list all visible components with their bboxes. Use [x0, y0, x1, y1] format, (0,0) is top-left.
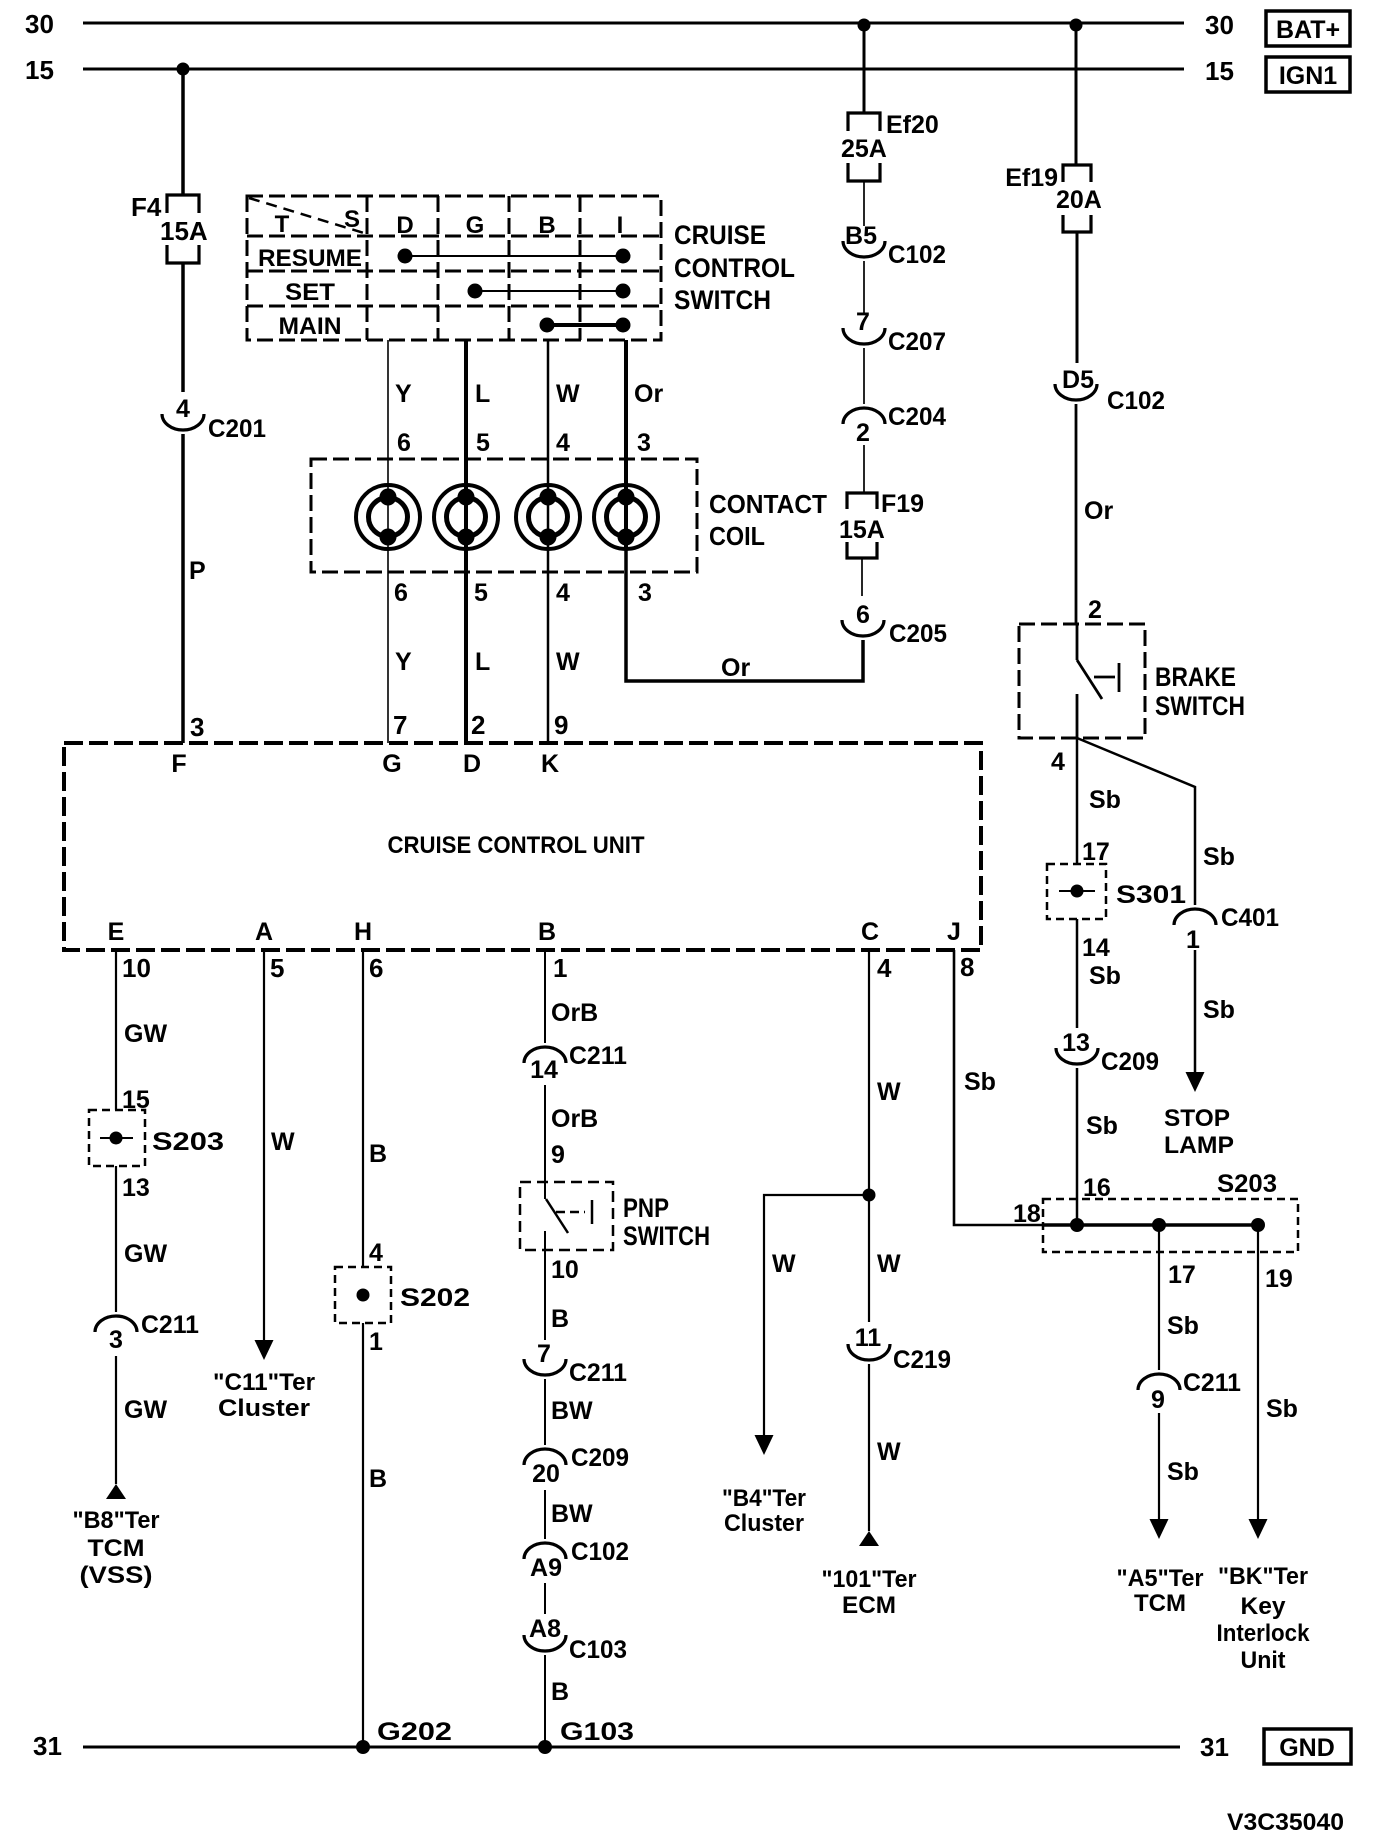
wire W label colC 2 — [877, 1250, 901, 1278]
wire P label — [189, 557, 206, 585]
fuse Ef19 label — [1005, 164, 1058, 192]
cruise control switch title — [674, 220, 795, 315]
ECM label — [822, 1566, 917, 1619]
svg-text:IGN1: IGN1 — [1279, 62, 1337, 90]
unit pin A label — [255, 918, 273, 946]
coil ring 3 (Or) — [594, 485, 658, 549]
wire Sb label 19 — [1266, 1395, 1298, 1423]
connector C102 pin B5 — [843, 222, 946, 269]
wire C103 to G103 (B) — [544, 1655, 546, 1747]
unit pin K label — [541, 750, 559, 778]
wire B label colH 1 — [369, 1140, 387, 1168]
wire Y pin 6 upper — [397, 429, 411, 457]
S203 pin 18 label — [1013, 1200, 1041, 1228]
switch divider row set — [247, 305, 661, 308]
svg-text:F4: F4 — [131, 192, 162, 222]
svg-text:TCM: TCM — [88, 1535, 145, 1562]
connector C209 pin 20 — [524, 1444, 629, 1488]
junction rail 30 at Ef20 — [858, 19, 871, 32]
stop lamp arrow — [1186, 1072, 1205, 1092]
wire C209 to C102 (BW) — [544, 1490, 546, 1539]
ground G202 junction — [356, 1740, 370, 1754]
brake switch lower wire — [1076, 694, 1079, 738]
switch divider row resume — [247, 270, 661, 273]
svg-text:18: 18 — [1013, 1200, 1041, 1228]
wire F4 to C201 (P) — [181, 263, 185, 392]
splice S203 bus — [1043, 1223, 1258, 1227]
svg-text:3: 3 — [109, 1326, 123, 1354]
svg-text:3: 3 — [638, 579, 652, 607]
wire brake to S301 (Sb) — [1076, 738, 1079, 864]
svg-text:I: I — [617, 212, 624, 239]
svg-text:A: A — [255, 918, 273, 946]
svg-text:Sb: Sb — [1266, 1395, 1298, 1423]
connector C211 pin 7 — [524, 1340, 627, 1387]
brake switch title — [1155, 662, 1245, 721]
svg-text:C211: C211 — [141, 1311, 199, 1339]
wire C207 to C204 — [863, 348, 865, 404]
svg-text:S203: S203 — [152, 1128, 224, 1156]
wire Ef19 to D5 — [1076, 232, 1079, 363]
svg-text:3: 3 — [637, 429, 651, 457]
svg-text:S301: S301 — [1116, 881, 1186, 909]
svg-text:3: 3 — [190, 712, 204, 742]
GND terminal box — [1264, 1729, 1351, 1764]
svg-text:BW: BW — [551, 1397, 593, 1425]
svg-text:8: 8 — [960, 952, 974, 982]
wire Y label upper — [395, 380, 412, 408]
svg-text:T: T — [275, 211, 290, 238]
junction rail 30 at Ef19 — [1070, 19, 1083, 32]
svg-text:4: 4 — [556, 579, 570, 607]
svg-text:15: 15 — [25, 55, 54, 85]
svg-text:W: W — [877, 1250, 901, 1278]
switch divider col G/B — [508, 196, 511, 340]
svg-text:17: 17 — [1082, 838, 1110, 866]
ground G103 label — [560, 1718, 634, 1746]
svg-text:4: 4 — [1051, 748, 1065, 776]
unit pin 6 label — [369, 953, 383, 983]
S203 pin 17 label — [1168, 1261, 1196, 1289]
svg-text:LAMP: LAMP — [1164, 1132, 1234, 1159]
unit pin 8 label — [960, 952, 974, 982]
unit pin D label — [463, 750, 481, 778]
stop lamp label — [1164, 1105, 1234, 1159]
unit pin B label — [538, 918, 556, 946]
connector C102 pin A9 — [524, 1538, 629, 1582]
unit pin E label — [108, 918, 125, 946]
svg-text:9: 9 — [554, 710, 568, 740]
PNP pin 10 label — [551, 1256, 579, 1284]
svg-text:C209: C209 — [571, 1444, 629, 1472]
branch wire to stop lamp — [1077, 738, 1195, 905]
svg-text:W: W — [271, 1128, 295, 1156]
svg-text:7: 7 — [537, 1340, 551, 1368]
TCM A5 arrow — [1150, 1519, 1169, 1539]
wire W label colC 3 — [877, 1438, 901, 1466]
main contact I — [616, 318, 631, 333]
svg-text:OrB: OrB — [551, 999, 598, 1027]
ground rail 31 (GND) — [83, 1746, 1180, 1749]
S202 pin 1 label — [369, 1328, 383, 1356]
ECM arrow — [859, 1531, 879, 1546]
coil ring 5 (L) — [434, 485, 498, 549]
splice S203 label (main) — [1217, 1170, 1277, 1198]
svg-text:GND: GND — [1279, 1734, 1335, 1762]
svg-text:Sb: Sb — [1203, 996, 1235, 1024]
connector C211 pin 3 — [95, 1311, 199, 1354]
svg-text:J: J — [947, 918, 961, 946]
svg-text:ECM: ECM — [842, 1592, 896, 1619]
svg-text:31: 31 — [33, 1731, 62, 1761]
brake switch pin 4 label — [1051, 748, 1065, 776]
switch divider row header — [247, 235, 661, 238]
svg-text:C102: C102 — [1107, 387, 1165, 415]
svg-text:Unit: Unit — [1241, 1647, 1286, 1674]
brake switch contact — [1094, 663, 1119, 692]
svg-text:20A: 20A — [1056, 186, 1102, 214]
svg-text:SET: SET — [285, 279, 335, 306]
wire W pin 4 upper — [556, 429, 570, 457]
coil ring 6 (Y) — [356, 485, 420, 549]
svg-text:9: 9 — [1151, 1386, 1165, 1414]
splice S203 junction 16 — [1070, 1218, 1084, 1232]
unit pin 1 label — [553, 953, 567, 983]
rail 15 left label — [25, 55, 54, 85]
svg-text:C204: C204 — [888, 403, 946, 431]
svg-text:G: G — [382, 750, 401, 778]
svg-text:BRAKE: BRAKE — [1155, 662, 1236, 692]
splice S202 — [335, 1267, 391, 1323]
svg-text:13: 13 — [1062, 1029, 1090, 1057]
S301 pin 14 label — [1082, 934, 1110, 962]
wire C102 to C207 — [863, 261, 865, 313]
wire C204 to F19 — [863, 445, 865, 493]
cluster B4 arrow — [755, 1435, 774, 1455]
svg-text:4: 4 — [369, 1239, 383, 1267]
wire L upper — [464, 340, 468, 486]
switch header G — [466, 212, 485, 239]
svg-text:C211: C211 — [569, 1359, 627, 1387]
svg-text:14: 14 — [530, 1056, 558, 1084]
svg-text:F: F — [171, 750, 186, 778]
svg-text:Sb: Sb — [1089, 786, 1121, 814]
switch divider col T/S — [366, 196, 369, 340]
wire Ef20 to C102 — [863, 181, 865, 226]
svg-text:2: 2 — [1088, 596, 1102, 624]
wire B label colH 2 — [369, 1465, 387, 1493]
svg-text:L: L — [475, 648, 490, 676]
coil pin 3 lower — [638, 579, 652, 607]
svg-text:A8: A8 — [529, 1615, 561, 1643]
svg-text:GW: GW — [124, 1240, 167, 1268]
fuse F4 label — [131, 192, 162, 222]
svg-text:25A: 25A — [841, 135, 887, 163]
wire Sb label above S203 — [1086, 1112, 1118, 1140]
svg-text:H: H — [354, 918, 372, 946]
wire GW label 3 — [124, 1396, 167, 1424]
S203 pin 19 label — [1265, 1265, 1293, 1293]
S301 pin 17 label — [1082, 838, 1110, 866]
wire pin E to S203 (GW) — [115, 950, 117, 1110]
svg-text:B5: B5 — [845, 222, 877, 250]
svg-text:C: C — [861, 918, 879, 946]
splice S202 label — [400, 1284, 470, 1312]
svg-text:B: B — [551, 1305, 569, 1333]
svg-text:Sb: Sb — [1086, 1112, 1118, 1140]
cruise control unit outline — [64, 743, 981, 950]
svg-text:Key: Key — [1241, 1593, 1287, 1620]
wire L label lower — [475, 648, 490, 676]
svg-text:CRUISE CONTROL UNIT: CRUISE CONTROL UNIT — [388, 832, 645, 859]
brake switch outline — [1019, 624, 1145, 738]
svg-text:4: 4 — [176, 395, 190, 423]
wire Or pin 3 upper — [637, 429, 651, 457]
svg-text:A9: A9 — [530, 1554, 562, 1582]
wire B label colB 2 — [551, 1678, 569, 1706]
wire Sb label 17a — [1167, 1312, 1199, 1340]
unit pin C label — [861, 918, 879, 946]
power rail 30 (BAT+) — [83, 22, 1184, 25]
coil pin 5 lower — [474, 579, 488, 607]
svg-text:OrB: OrB — [551, 1105, 598, 1133]
set contact G — [468, 284, 483, 299]
svg-text:BW: BW — [551, 1500, 593, 1528]
svg-text:B: B — [551, 1678, 569, 1706]
svg-text:SWITCH: SWITCH — [1155, 691, 1245, 721]
connector C209 pin 13 — [1056, 1029, 1159, 1076]
svg-text:C211: C211 — [1183, 1369, 1241, 1397]
wire L label upper — [475, 380, 490, 408]
cruise control switch outline — [247, 196, 661, 340]
svg-text:Sb: Sb — [1089, 962, 1121, 990]
svg-text:C205: C205 — [889, 620, 947, 648]
svg-text:CONTACT: CONTACT — [709, 489, 827, 519]
S203 pin 13 label — [122, 1174, 150, 1202]
wire C201 to pin F — [181, 434, 185, 743]
wire C209 to S203 (Sb) — [1076, 1068, 1079, 1225]
wire C211-9 to TCM (Sb) — [1158, 1413, 1160, 1521]
svg-text:S203: S203 — [1217, 1170, 1277, 1198]
svg-text:V3C35040: V3C35040 — [1227, 1809, 1344, 1836]
svg-text:6: 6 — [856, 601, 870, 629]
svg-text:K: K — [541, 750, 559, 778]
svg-text:TCM: TCM — [1134, 1590, 1186, 1617]
svg-text:"101"Ter: "101"Ter — [822, 1566, 917, 1593]
svg-text:Or: Or — [634, 380, 663, 408]
wire B label colB 1 — [551, 1305, 569, 1333]
svg-text:5: 5 — [476, 429, 490, 457]
key interlock arrow — [1249, 1519, 1268, 1539]
switch header S — [344, 206, 360, 233]
svg-text:Y: Y — [395, 380, 412, 408]
svg-text:D: D — [396, 212, 413, 239]
PNP switch title — [623, 1193, 710, 1251]
switch row SET label — [285, 279, 335, 306]
wire Y upper — [387, 340, 389, 486]
wire pin J to S203 (Sb) — [954, 950, 1043, 1225]
power rail 15 (IGN1) — [83, 68, 1184, 71]
svg-text:B: B — [538, 918, 556, 946]
resume contact link — [405, 255, 623, 257]
fuse Ef20 25A — [848, 113, 880, 181]
svg-text:Y: Y — [395, 648, 412, 676]
svg-text:STOP: STOP — [1164, 1105, 1230, 1132]
svg-text:1: 1 — [1186, 926, 1200, 954]
unit pin 10 label — [122, 953, 151, 983]
unit pin 5 label — [270, 953, 284, 983]
wire W lower — [547, 548, 550, 743]
wire OrB label 1 — [551, 999, 598, 1027]
svg-text:"B8"Ter: "B8"Ter — [73, 1507, 160, 1534]
svg-text:13: 13 — [122, 1174, 150, 1202]
wire C401 to stop lamp (Sb) — [1194, 950, 1197, 1076]
splice S203 (E column) — [89, 1110, 145, 1166]
svg-text:B: B — [538, 212, 555, 239]
main contact B — [540, 318, 555, 333]
wire Sb label colJ — [964, 1068, 996, 1096]
svg-text:C102: C102 — [888, 241, 946, 269]
wire W label upper — [556, 380, 580, 408]
svg-text:GW: GW — [124, 1396, 167, 1424]
svg-text:C219: C219 — [893, 1346, 951, 1374]
splice S203 junction 19 — [1251, 1218, 1265, 1232]
svg-text:CRUISE: CRUISE — [674, 220, 766, 250]
svg-text:15A: 15A — [160, 216, 208, 246]
wire C211 to TCM (GW) — [115, 1356, 117, 1484]
fuse F19 value 15A — [839, 516, 885, 544]
wire Or label upper — [634, 380, 663, 408]
svg-text:15: 15 — [1205, 56, 1234, 86]
cluster B4 label — [722, 1485, 806, 1537]
TCM A5 label — [1117, 1565, 1204, 1617]
brake switch pin 2 — [1088, 596, 1102, 624]
connector C219 pin 11 — [848, 1324, 951, 1374]
ground G202 label — [377, 1718, 452, 1746]
fuse Ef19 value 20A — [1056, 186, 1102, 214]
svg-text:C209: C209 — [1101, 1048, 1159, 1076]
junction on rail 15 — [177, 63, 190, 76]
splice S203 junction 17 — [1152, 1218, 1166, 1232]
svg-text:S202: S202 — [400, 1284, 470, 1312]
key interlock label — [1217, 1563, 1311, 1674]
wire K pin 9 — [554, 710, 568, 740]
fuse F4 15A — [167, 195, 199, 263]
switch row MAIN label — [279, 313, 342, 340]
set contact I — [616, 284, 631, 299]
connector C211 pin 14 — [524, 1042, 627, 1084]
svg-text:W: W — [877, 1078, 901, 1106]
wire Sb label below S301 — [1089, 962, 1121, 990]
pin 3 label at unit F — [190, 712, 204, 742]
cluster C11 label — [213, 1369, 315, 1422]
svg-text:1: 1 — [553, 953, 567, 983]
svg-text:14: 14 — [1082, 934, 1110, 962]
wire Or upper — [624, 340, 628, 486]
svg-text:"BK"Ter: "BK"Ter — [1218, 1563, 1308, 1590]
wire Y lower — [387, 548, 389, 743]
wire OrB label 2 — [551, 1105, 598, 1133]
svg-text:7: 7 — [856, 308, 870, 336]
svg-text:SWITCH: SWITCH — [623, 1221, 710, 1251]
wire Sb label 17b — [1167, 1458, 1199, 1486]
coil ring 4 (W) — [516, 485, 580, 549]
PNP switch contact — [556, 1200, 592, 1224]
svg-text:W: W — [772, 1250, 796, 1278]
connector C102 pin D5 — [1055, 366, 1165, 415]
IGN1 terminal box — [1266, 57, 1350, 92]
TCM VSS label — [73, 1507, 160, 1589]
svg-text:31: 31 — [1200, 1732, 1229, 1762]
wire C211 to C209 (BW) — [544, 1379, 546, 1445]
svg-text:CONTROL: CONTROL — [674, 253, 795, 283]
svg-text:C211: C211 — [569, 1042, 627, 1070]
svg-text:Or: Or — [1084, 497, 1113, 525]
wire S203 to C211 (GW) — [115, 1166, 117, 1312]
svg-text:9: 9 — [551, 1141, 565, 1169]
rail 30 right label — [1205, 10, 1234, 40]
wire pin B to C211 (OrB) — [544, 950, 546, 1043]
wire BW label 2 — [551, 1500, 593, 1528]
wire BW label 1 — [551, 1397, 593, 1425]
svg-text:B: B — [369, 1140, 387, 1168]
svg-text:D5: D5 — [1062, 366, 1094, 394]
wire Or label right — [1084, 497, 1113, 525]
svg-text:4: 4 — [877, 953, 892, 983]
junction C branch — [863, 1189, 876, 1202]
fuse F19 15A — [847, 493, 877, 558]
svg-text:"C11"Ter: "C11"Ter — [213, 1369, 315, 1396]
wire Or label lower — [721, 654, 750, 682]
svg-text:5: 5 — [474, 579, 488, 607]
wire GW label 2 — [124, 1240, 167, 1268]
svg-text:BAT+: BAT+ — [1276, 16, 1340, 44]
svg-text:30: 30 — [25, 9, 54, 39]
wire Or to C205 — [626, 548, 863, 681]
S203 pin 16 label — [1083, 1174, 1111, 1202]
fuse F4 value 15A — [160, 216, 208, 246]
wire rail30 to Ef19 — [1075, 23, 1078, 165]
wire W label colA — [271, 1128, 295, 1156]
set contact link — [475, 290, 623, 292]
svg-text:F19: F19 — [881, 490, 924, 518]
coil pin 4 lower — [556, 579, 570, 607]
PNP switch blade — [546, 1199, 568, 1233]
svg-text:Cluster: Cluster — [218, 1395, 310, 1422]
svg-text:G103: G103 — [560, 1718, 634, 1746]
switch divider col D/G — [437, 196, 440, 340]
wire PNP to C211-7 (B) — [544, 1231, 546, 1340]
PNP pin 9 label — [551, 1141, 565, 1169]
svg-text:6: 6 — [394, 579, 408, 607]
splice S301 — [1047, 864, 1106, 919]
svg-text:C207: C207 — [888, 328, 946, 356]
wire S301 to C209 (Sb) — [1076, 919, 1079, 1028]
svg-text:5: 5 — [270, 953, 284, 983]
wire GW label 1 — [124, 1020, 167, 1048]
unit pin 4 label — [877, 953, 892, 983]
splice S203 label (E column) — [152, 1128, 224, 1156]
cluster C11 arrow — [255, 1340, 274, 1360]
wire rail15 to fuse F4 — [181, 69, 185, 195]
svg-text:Sb: Sb — [1203, 843, 1235, 871]
svg-text:Ef19: Ef19 — [1005, 164, 1058, 192]
svg-text:6: 6 — [397, 429, 411, 457]
svg-text:10: 10 — [122, 953, 151, 983]
svg-text:Sb: Sb — [1167, 1312, 1199, 1340]
diagram number V3C35040 — [1227, 1809, 1344, 1836]
connector C103 pin A8 — [524, 1615, 627, 1664]
